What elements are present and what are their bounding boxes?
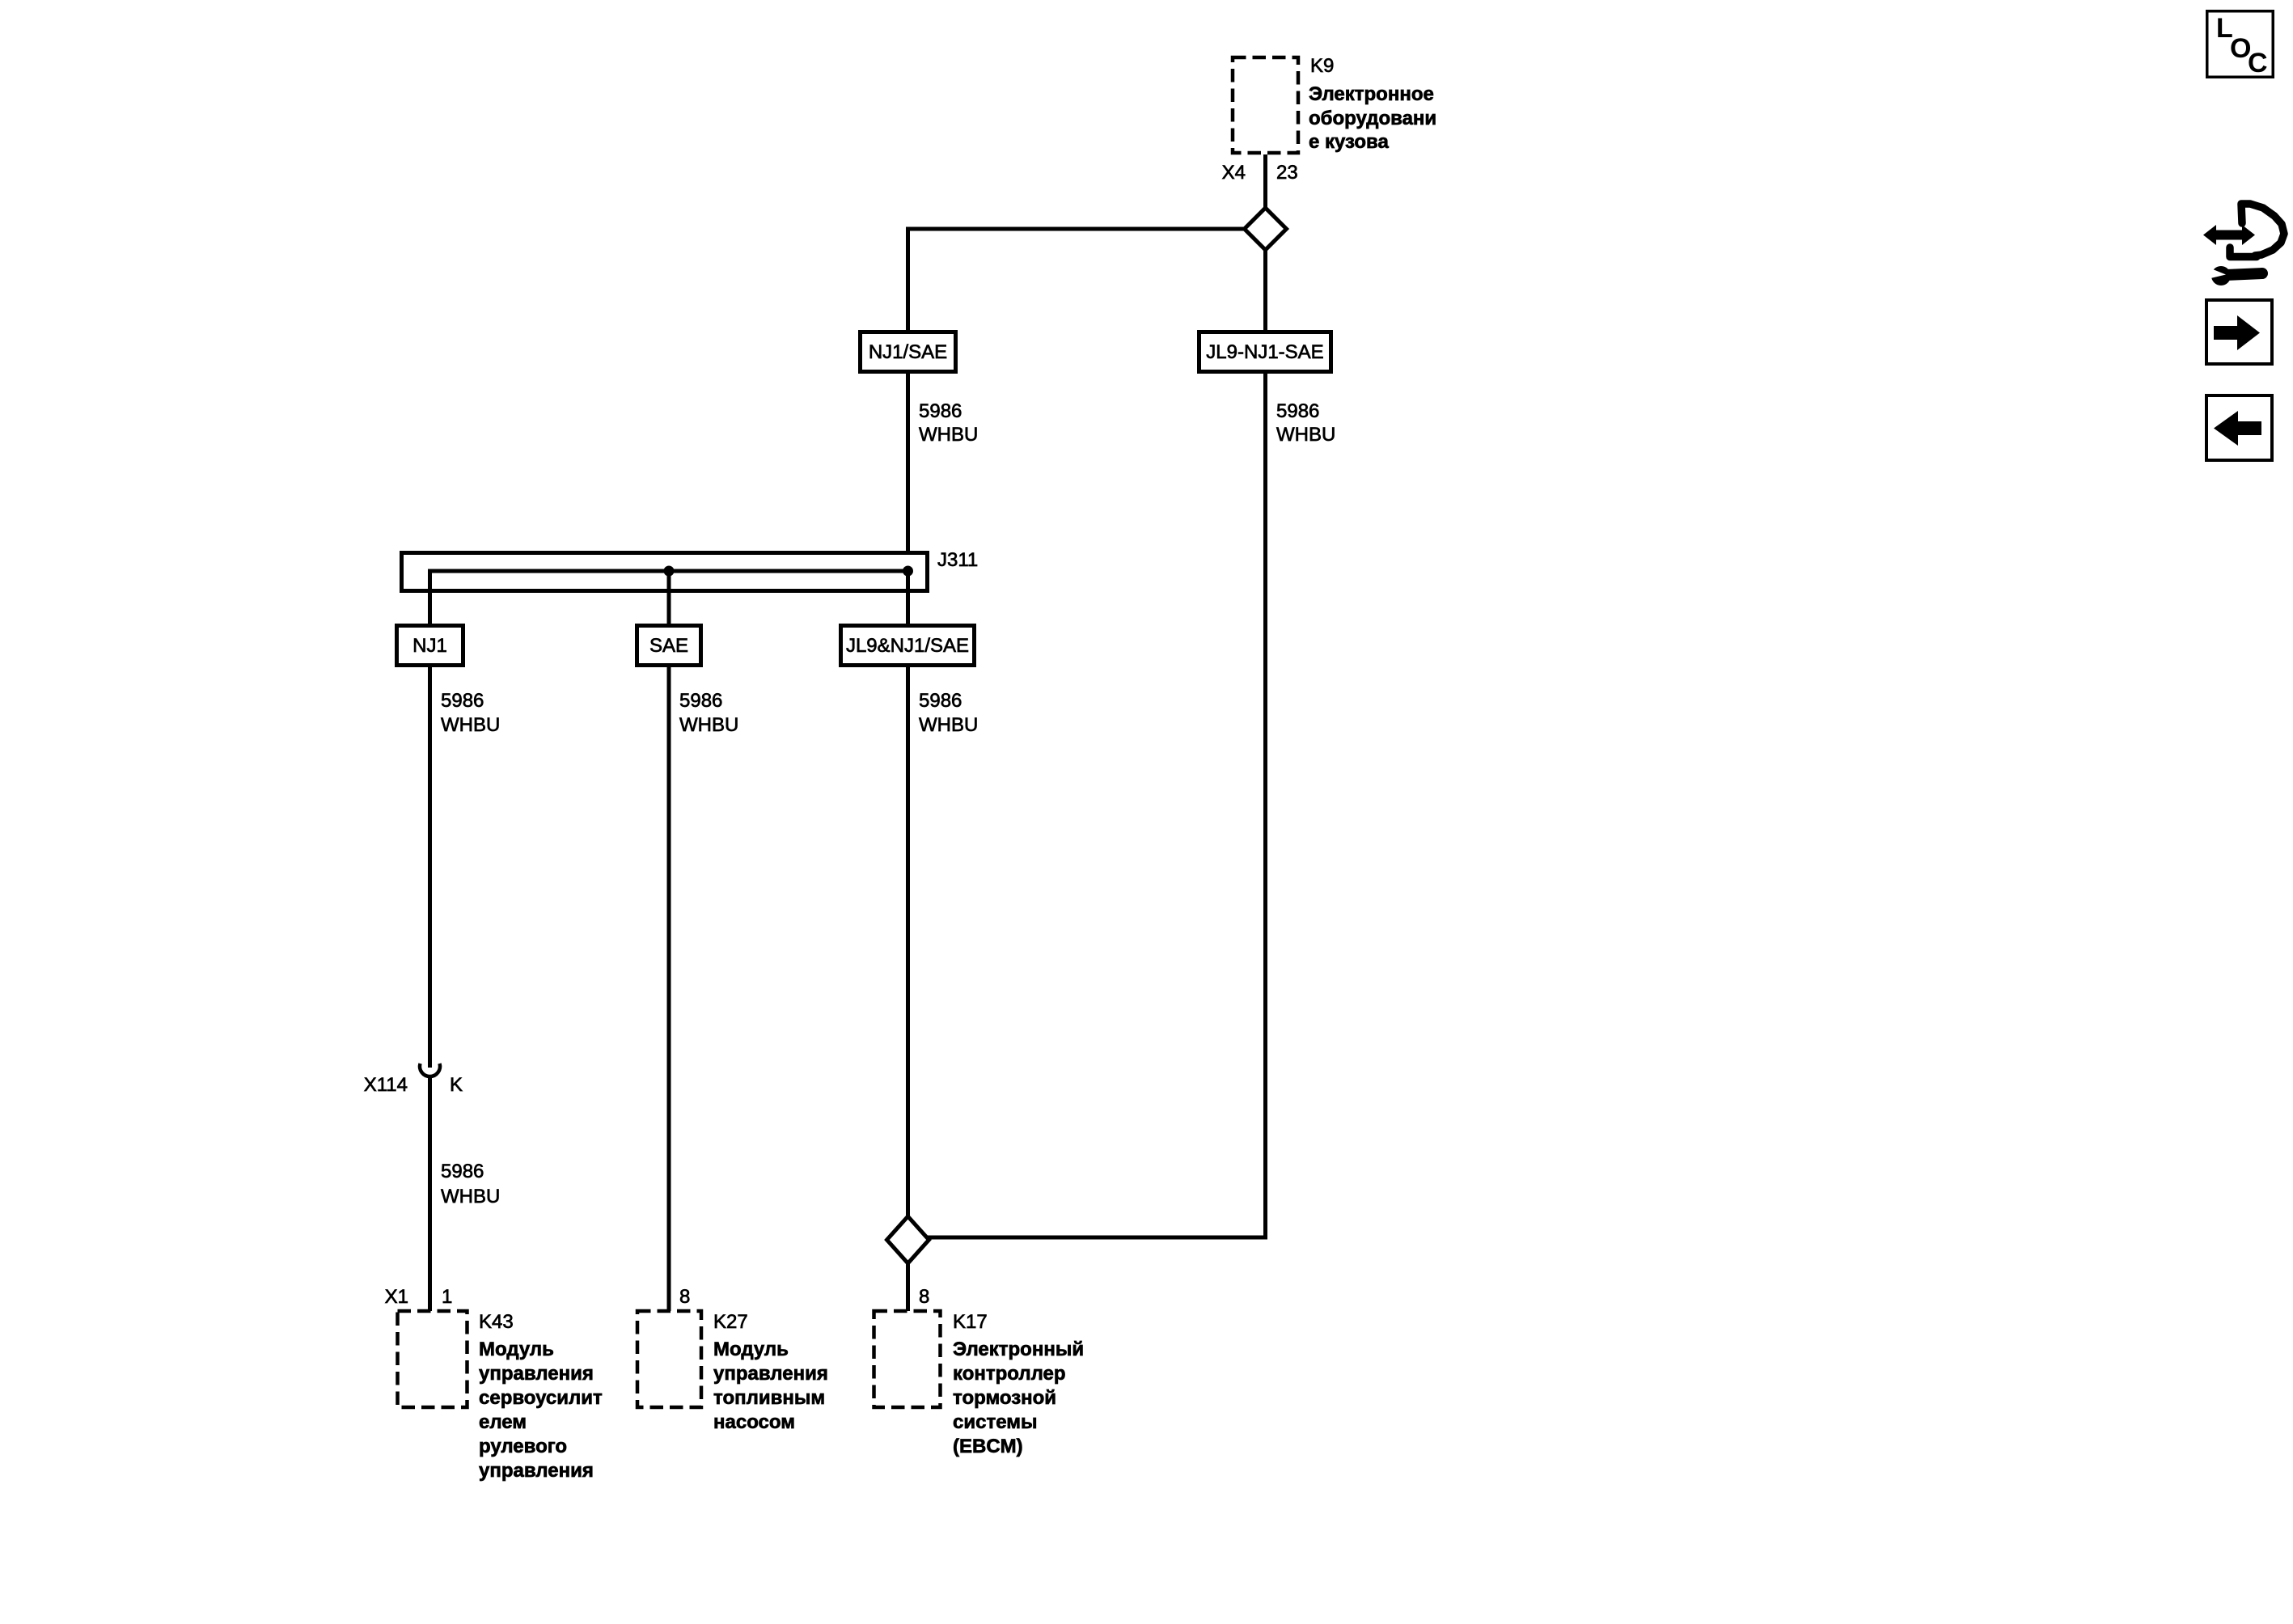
svg-text:насосом: насосом xyxy=(713,1411,795,1433)
svg-text:тормозной: тормозной xyxy=(953,1387,1056,1409)
svg-text:управления: управления xyxy=(479,1363,594,1385)
svg-text:(EBCM): (EBCM) xyxy=(953,1436,1023,1457)
svg-text:NJ1/SAE: NJ1/SAE xyxy=(869,341,947,363)
junction dot (JL9 tap) xyxy=(903,566,913,577)
component name: Электронное оборудование кузова xyxy=(1309,83,1436,153)
harness routing icon (wrench) xyxy=(2207,266,2262,285)
backward arrow xyxy=(2214,411,2261,446)
wire: J311 to JL9&NJ1/SAE box xyxy=(906,571,910,625)
svg-text:елем: елем xyxy=(479,1411,527,1433)
LOC legend box xyxy=(2207,11,2274,78)
svg-text:C: C xyxy=(2248,48,2268,78)
wire: JL9-NJ1-SAE down and left to lower diamond xyxy=(927,372,1266,1237)
forward arrow legend box xyxy=(2206,300,2272,364)
harness box NJ1 xyxy=(397,626,463,666)
svg-text:X1: X1 xyxy=(385,1286,408,1308)
svg-text:WHBU: WHBU xyxy=(679,714,738,736)
harness box JL9&NJ1/SAE xyxy=(841,626,975,666)
svg-text:X4: X4 xyxy=(1222,162,1246,184)
wire label 5986 WHBU (below JL9-NJ1-SAE) xyxy=(1276,400,1335,446)
svg-text:Модуль: Модуль xyxy=(479,1339,554,1360)
svg-text:Модуль: Модуль xyxy=(713,1339,789,1360)
wire: SAE box down to K27 xyxy=(667,666,671,1311)
harness routing icon (lower bar with stub) xyxy=(2230,247,2257,257)
forward arrow xyxy=(2214,315,2260,350)
svg-text:управления: управления xyxy=(713,1363,828,1385)
wire: K9 pin 23 down to splice diamond xyxy=(1263,154,1267,210)
connector K9 (dashed box, body electronic equipment) xyxy=(1233,57,1298,153)
svg-text:WHBU: WHBU xyxy=(1276,424,1335,446)
wire: JL9&NJ1/SAE box down to lower diamond xyxy=(906,666,910,1218)
svg-text:SAE: SAE xyxy=(649,635,688,657)
wire: NJ1 box down to inline connector X114 xyxy=(428,666,432,1068)
svg-text:WHBU: WHBU xyxy=(919,424,978,446)
svg-text:топливным: топливным xyxy=(713,1387,825,1409)
svg-text:K: K xyxy=(450,1074,463,1096)
harness box JL9-NJ1-SAE xyxy=(1199,332,1331,372)
svg-text:Электронный: Электронный xyxy=(953,1339,1084,1360)
bus wire inside J311 with corner down to NJ1 xyxy=(430,571,910,624)
svg-text:сервоусилит: сервоусилит xyxy=(479,1387,603,1409)
svg-text:K43: K43 xyxy=(479,1311,514,1333)
wire label 5986 WHBU (below SAE) xyxy=(679,690,738,736)
connector K27 (dashed box, fuel pump control module) xyxy=(637,1311,701,1407)
svg-text:рулевого: рулевого xyxy=(479,1436,567,1457)
svg-text:X114: X114 xyxy=(364,1074,408,1096)
component name: Модуль управления топливным насосом xyxy=(713,1339,828,1433)
svg-text:Электронное: Электронное xyxy=(1309,83,1434,105)
harness routing icon (hooked path) xyxy=(2241,204,2284,256)
wire: diamond bottom down to JL9-NJ1-SAE xyxy=(1263,248,1267,332)
svg-text:5986: 5986 xyxy=(441,690,484,712)
svg-text:контроллер: контроллер xyxy=(953,1363,1066,1385)
svg-text:23: 23 xyxy=(1276,162,1298,184)
svg-text:K9: K9 xyxy=(1310,55,1334,77)
wire: X114 down to K43 xyxy=(428,1076,432,1311)
svg-text:WHBU: WHBU xyxy=(919,714,978,736)
svg-text:1: 1 xyxy=(442,1286,452,1308)
svg-text:5986: 5986 xyxy=(441,1161,484,1182)
wire label 5986 WHBU (below NJ1/SAE) xyxy=(919,400,978,446)
svg-text:NJ1: NJ1 xyxy=(412,635,447,657)
svg-text:управления: управления xyxy=(479,1460,594,1482)
wire label 5986 WHBU (below JL9&NJ1/SAE) xyxy=(919,690,978,736)
inline connector X114 (cup symbol) xyxy=(420,1064,440,1076)
svg-text:WHBU: WHBU xyxy=(441,714,500,736)
svg-text:WHBU: WHBU xyxy=(441,1186,500,1207)
svg-text:8: 8 xyxy=(679,1286,690,1308)
splice pack J311 box xyxy=(402,553,928,591)
backward arrow legend box xyxy=(2206,395,2272,460)
LOC letters xyxy=(2216,13,2268,78)
splice diamond (lower) xyxy=(887,1216,929,1263)
wire: diamond left to corner, down to NJ1/SAE xyxy=(908,229,1246,332)
svg-text:J311: J311 xyxy=(937,549,978,571)
wire label 5986 WHBU (below X114) xyxy=(441,1161,500,1207)
svg-text:5986: 5986 xyxy=(679,690,722,712)
connector K43 (dashed box, steering assist control module) xyxy=(398,1311,467,1407)
svg-text:системы: системы xyxy=(953,1411,1037,1433)
wire: J311 to SAE box xyxy=(667,571,671,625)
connector K17 (dashed box, electronic brake control module) xyxy=(874,1311,941,1407)
svg-text:K27: K27 xyxy=(713,1311,748,1333)
svg-text:е кузова: е кузова xyxy=(1309,131,1389,153)
wire: NJ1/SAE down into splice pack J311 xyxy=(906,372,910,571)
junction dot (SAE tap) xyxy=(664,566,675,577)
svg-text:5986: 5986 xyxy=(919,690,962,712)
splice diamond (upper) xyxy=(1245,208,1287,250)
svg-text:K17: K17 xyxy=(953,1311,988,1333)
svg-text:оборудовани: оборудовани xyxy=(1309,108,1436,129)
harness routing icon (double arrow) xyxy=(2203,225,2255,245)
wire label 5986 WHBU (below NJ1) xyxy=(441,690,500,736)
component name: Модуль управления сервоусилителем рулевого управления xyxy=(479,1339,603,1482)
svg-text:5986: 5986 xyxy=(1276,400,1319,422)
harness box SAE xyxy=(637,626,701,666)
svg-text:8: 8 xyxy=(919,1286,929,1308)
svg-text:5986: 5986 xyxy=(919,400,962,422)
svg-text:JL9-NJ1-SAE: JL9-NJ1-SAE xyxy=(1206,341,1323,363)
wire: lower diamond down to K17 xyxy=(906,1262,910,1311)
component name: Электронный контроллер тормозной системы (EBCM) xyxy=(953,1339,1084,1457)
svg-text:JL9&NJ1/SAE: JL9&NJ1/SAE xyxy=(846,635,969,657)
harness box NJ1/SAE xyxy=(861,332,956,372)
